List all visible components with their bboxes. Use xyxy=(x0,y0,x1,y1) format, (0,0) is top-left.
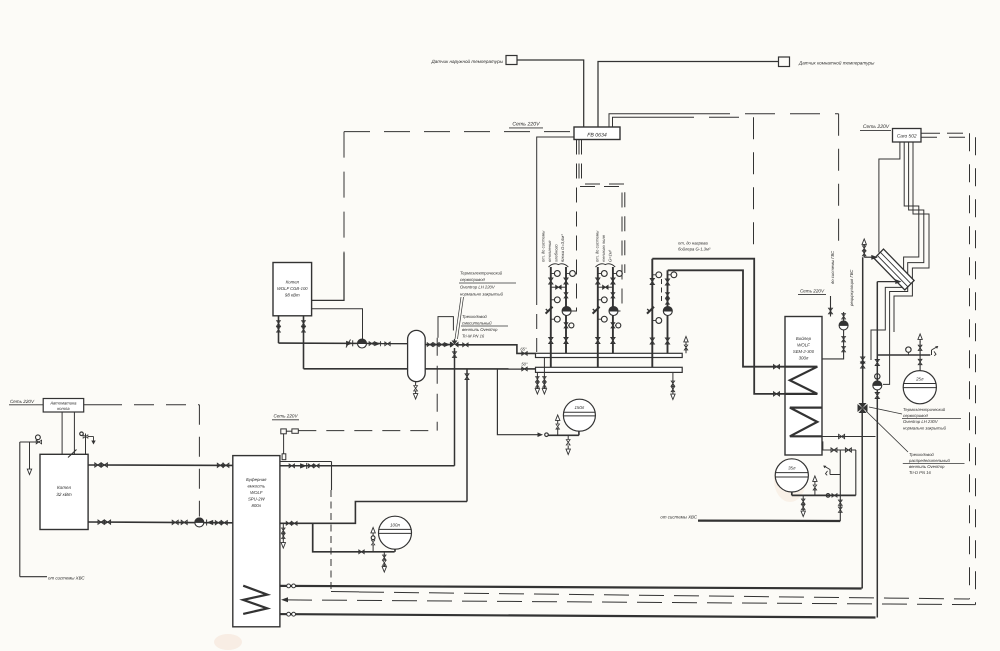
valve below mixing valve xyxy=(453,348,457,466)
svg-text:WOLF CGB-100: WOLF CGB-100 xyxy=(277,286,308,291)
svg-text:WOLF: WOLF xyxy=(797,343,810,348)
separator drain xyxy=(413,382,417,399)
buffer tank WOLF SPU-2W xyxy=(233,456,280,627)
pipe buffer to return xyxy=(465,369,469,502)
CGB right pipe xyxy=(302,316,306,369)
pipe to HX upper port xyxy=(864,255,878,260)
safety valve XVS xyxy=(823,466,840,476)
svg-text:Бойлер: Бойлер xyxy=(796,336,812,341)
wire controller to circuit2 pump xyxy=(579,140,625,312)
valves buffer supply xyxy=(286,521,297,525)
net 220V connector buffer xyxy=(281,429,299,434)
label to bojler heating xyxy=(678,241,711,252)
svg-text:отопления: отопления xyxy=(547,240,552,262)
svg-text:SEM-2-300: SEM-2-300 xyxy=(793,349,815,354)
wire Caro bundle w2 xyxy=(883,142,924,384)
wire connector to servo xyxy=(298,430,437,432)
svg-text:Сеть 220V: Сеть 220V xyxy=(273,414,298,419)
wire Caro bundle w3 xyxy=(894,142,929,332)
room temperature sensor xyxy=(779,57,875,67)
svg-text:Tri-M PN 16: Tri-M PN 16 xyxy=(462,334,485,339)
svg-text:вентиль Oventrop: вентиль Oventrop xyxy=(909,464,945,469)
buffer sensor sleeve xyxy=(282,434,286,460)
boiler WOLF CGB-100 xyxy=(273,263,312,316)
svg-text:65°: 65° xyxy=(520,346,527,351)
label thermo servo left xyxy=(459,271,516,297)
svg-text:от, до системы: от, до системы xyxy=(595,231,600,262)
label Tri-M valve xyxy=(461,314,508,339)
pipe recirc return xyxy=(822,330,845,359)
label XVS left xyxy=(48,575,85,580)
heating circuit 3 risers xyxy=(647,259,677,368)
label net 220V buffer xyxy=(272,414,299,420)
pump DHW loading xyxy=(873,381,882,390)
wire 220V to automation xyxy=(36,404,43,406)
valves boiler return xyxy=(98,520,227,525)
svg-text:Термоэлектрический: Термоэлектрический xyxy=(460,271,503,276)
vent on 35l line xyxy=(813,476,817,496)
safety valve right xyxy=(932,346,939,356)
valves after pump xyxy=(369,341,390,346)
wire Caro bundle w1 xyxy=(871,142,919,360)
valve on V2 xyxy=(875,360,879,366)
svg-text:50°: 50° xyxy=(521,362,528,367)
pipe 35l tank xyxy=(792,492,856,497)
pipe flow main xyxy=(279,342,408,345)
valve coil return xyxy=(774,392,780,396)
manifold drain left 1 xyxy=(535,372,539,394)
svg-text:до системы ГВС: до системы ГВС xyxy=(830,250,835,284)
wire Caro bundle w0 xyxy=(879,142,900,253)
svg-text:Caro 502: Caro 502 xyxy=(897,134,917,140)
supply manifold xyxy=(536,353,683,357)
expansion tank 25l xyxy=(903,371,936,404)
svg-text:от, до системы: от, до системы xyxy=(541,231,546,262)
manifold air vent right xyxy=(684,336,688,353)
pipe from XVS system xyxy=(660,515,840,522)
pipe boiler supply xyxy=(88,464,233,466)
pipe XVS to boiler xyxy=(20,442,47,577)
pipe flow right of separator xyxy=(425,344,451,346)
XVS riser xyxy=(838,450,842,521)
svg-text:G=1м³: G=1м³ xyxy=(608,249,613,262)
svg-text:35л: 35л xyxy=(788,466,796,471)
label thermo servo right xyxy=(902,407,961,431)
svg-text:нормально закрытый: нормально закрытый xyxy=(903,426,947,431)
manifold drain right xyxy=(671,372,675,399)
pipe bojler to V2 xyxy=(822,434,876,438)
wire controller right W2 xyxy=(613,117,754,256)
svg-text:32 кВт: 32 кВт xyxy=(56,492,72,497)
boiler safety group xyxy=(80,432,96,454)
three-way mixing valve Tri-M xyxy=(451,339,459,348)
pipe buffer charge top xyxy=(280,465,455,467)
pump boiler return xyxy=(195,518,204,527)
svg-text:котла: котла xyxy=(57,406,70,411)
wire automation to pump xyxy=(84,405,200,517)
pipe return to 150l xyxy=(497,369,548,437)
svg-text:теплого поля: теплого поля xyxy=(601,234,606,262)
outdoor temperature sensor xyxy=(430,56,517,65)
svg-text:98 кВт: 98 кВт xyxy=(285,293,300,298)
label net 220V left xyxy=(9,399,36,405)
Caro 502 controller xyxy=(893,129,922,143)
wire Caro right upper xyxy=(921,133,970,599)
fittings buffer charge xyxy=(289,463,319,469)
label 65 xyxy=(520,346,527,351)
svg-text:от системы ХВС: от системы ХВС xyxy=(48,575,85,580)
svg-text:распределительный: распределительный xyxy=(908,458,950,463)
svg-text:Tri-D PN 16: Tri-D PN 16 xyxy=(909,470,931,475)
svg-text:SPU-2W: SPU-2W xyxy=(248,497,266,502)
valves boiler supply xyxy=(95,463,229,468)
label circuit 2 xyxy=(595,231,613,262)
label recirculation xyxy=(849,269,854,307)
svg-text:сервопривод: сервопривод xyxy=(903,413,929,418)
wires automation to boiler xyxy=(62,412,76,458)
leader thermo servo xyxy=(869,407,902,414)
svg-text:100л: 100л xyxy=(390,523,400,528)
svg-text:25л: 25л xyxy=(915,377,924,382)
hydraulic separator xyxy=(408,330,426,381)
unions DHW return xyxy=(287,612,296,616)
svg-text:Трехходовой: Трехходовой xyxy=(462,314,487,319)
drain on 100l line xyxy=(382,552,386,572)
vent on 150l line xyxy=(556,415,560,435)
valves V1 top xyxy=(862,246,866,257)
check valve flow xyxy=(346,340,353,348)
heating circuit 1 risers xyxy=(546,264,576,367)
pipe to HX lower port xyxy=(877,279,901,284)
wire dashed bottom 1 xyxy=(331,592,970,600)
svg-text:WOLF: WOLF xyxy=(250,490,263,495)
return manifold xyxy=(536,367,683,372)
pipe branch to 100l xyxy=(313,523,395,552)
svg-text:FB 0634: FB 0634 xyxy=(587,133,607,139)
pipe V2 xyxy=(876,282,878,618)
boiler automation box xyxy=(43,399,83,413)
svg-text:Датчик комнатной температуры: Датчик комнатной температуры xyxy=(798,61,875,66)
svg-text:Сеть 220V: Сеть 220V xyxy=(863,124,890,130)
label Tri-D valve xyxy=(903,452,965,475)
wire dashed bottom 2 xyxy=(281,597,976,604)
svg-text:300л: 300л xyxy=(799,356,809,361)
label circuit 1 xyxy=(541,231,566,263)
check valve boiler return xyxy=(207,520,214,526)
svg-text:сервопривод: сервопривод xyxy=(460,277,486,282)
buffer coil xyxy=(243,586,267,614)
valve on 100l line xyxy=(359,550,364,554)
pipe 65 supply xyxy=(459,343,536,355)
wire controller to manifold left xyxy=(537,137,574,352)
svg-text:от системы ХВС: от системы ХВС xyxy=(660,515,697,520)
label net 220V bojler xyxy=(798,289,826,295)
valve on V1 xyxy=(861,357,865,368)
label DHW out xyxy=(830,250,835,284)
valve below pump V2 xyxy=(875,393,879,399)
pipe recirculation xyxy=(842,312,846,321)
wire CGB to pump xyxy=(312,309,363,340)
pipe boiler return xyxy=(88,521,233,524)
svg-text:вентиль Oventrop: вентиль Oventrop xyxy=(462,327,498,332)
pipe DHW supply bottom xyxy=(243,586,861,589)
wire room sensor to controller xyxy=(598,62,779,128)
expansion tank 35l xyxy=(775,459,808,492)
leaders to mixing valve xyxy=(455,297,464,339)
wire Caro right lower xyxy=(921,137,976,604)
air vent valve xyxy=(918,334,922,355)
svg-text:рециркуляция ГВС: рециркуляция ГВС xyxy=(849,269,854,307)
heating circuit 2 risers xyxy=(593,264,623,367)
svg-text:смесительный: смесительный xyxy=(462,321,492,326)
expansion tank 150l xyxy=(563,399,595,435)
plate heat exchanger xyxy=(874,249,914,290)
label net 220V at controller xyxy=(509,122,543,128)
leader Tri-D xyxy=(866,411,908,452)
pipe bojler coil supply xyxy=(668,270,785,366)
bojler coil lower xyxy=(790,408,822,437)
svg-text:блока G=3,6м³: блока G=3,6м³ xyxy=(560,234,565,262)
servo housing xyxy=(438,317,453,338)
pipe 150l line xyxy=(549,434,579,436)
pipe bojler coil return xyxy=(652,259,785,394)
label 50 xyxy=(521,362,528,367)
pipe cold down xyxy=(855,450,857,495)
controller FB 0634 xyxy=(574,127,620,140)
svg-text:Oventrop LH 220V: Oventrop LH 220V xyxy=(460,285,496,290)
svg-text:Датчик наружной температуры: Датчик наружной температуры xyxy=(430,59,503,64)
pipe safety main xyxy=(878,354,930,356)
boiler 32kW xyxy=(40,454,88,529)
pipe bojler cold feed xyxy=(822,442,856,452)
wire servo xyxy=(436,338,438,431)
valve coil supply xyxy=(774,365,780,369)
wire controller right W1 xyxy=(609,114,839,250)
wire controller to circuit1 pump xyxy=(572,140,577,312)
drain below buffer port xyxy=(281,523,285,548)
svg-text:Сеть 220V: Сеть 220V xyxy=(10,399,35,404)
wire to circuit3 pump xyxy=(661,279,663,303)
svg-text:Автоматика: Автоматика xyxy=(49,401,77,406)
pressure gauge xyxy=(906,347,911,355)
svg-text:150л: 150л xyxy=(574,405,584,410)
discharge arrow left xyxy=(27,442,31,475)
svg-text:от, до нагрева: от, до нагрева xyxy=(678,241,708,246)
svg-text:Котел: Котел xyxy=(286,280,300,285)
unions DHW supply xyxy=(287,584,296,588)
pump recirculation xyxy=(839,321,848,330)
svg-text:Сеть 220V: Сеть 220V xyxy=(800,289,825,294)
pipe V1 xyxy=(861,257,864,588)
valves flow right xyxy=(427,342,450,347)
safety on 100l line xyxy=(371,527,375,551)
svg-text:Буферная: Буферная xyxy=(246,477,267,482)
wire controller to CGB boiler xyxy=(312,132,344,301)
svg-text:Oventrop LH 230V: Oventrop LH 230V xyxy=(903,419,939,424)
check valve on V2 xyxy=(875,374,880,379)
svg-text:Котел: Котел xyxy=(57,485,71,490)
wire outdoor sensor to controller xyxy=(517,60,584,127)
manifold drain left 2 xyxy=(542,358,546,395)
cold feed with reducer xyxy=(20,435,42,444)
svg-text:хлебного: хлебного xyxy=(554,244,559,263)
label net 220V at Caro xyxy=(860,124,891,130)
drain on 150l line xyxy=(566,435,570,454)
pipe buffer top sensor line xyxy=(280,462,332,592)
CGB left pipe xyxy=(277,316,281,343)
valve to 25l tank xyxy=(918,355,922,371)
expansion tank 100l xyxy=(379,516,412,552)
svg-text:бойлера G-1,3м³: бойлера G-1,3м³ xyxy=(678,247,711,252)
pipe buffer supply mid xyxy=(280,502,467,524)
drain on 35l line xyxy=(801,495,805,516)
svg-text:Трехходовой: Трехходовой xyxy=(909,452,934,457)
svg-text:емкость: емкость xyxy=(247,484,265,489)
wire 220V supply xyxy=(344,131,574,133)
svg-text:Сеть 220V: Сеть 220V xyxy=(512,122,540,128)
svg-text:800л: 800л xyxy=(252,503,262,508)
pipe DHW outlet xyxy=(829,296,833,317)
bojler coil upper xyxy=(785,367,817,394)
vent arrow V1 top xyxy=(862,239,866,248)
svg-text:Термоэлектрический: Термоэлектрический xyxy=(903,407,946,412)
svg-text:нормально закрытый: нормально закрытый xyxy=(460,292,504,297)
bojler WOLF SEM-2-300 xyxy=(785,317,822,456)
pump CGB circuit xyxy=(358,339,367,348)
three-way distribution valve Tri-D xyxy=(858,403,868,413)
pipe return main xyxy=(304,367,536,371)
pipe DHW return bottom xyxy=(243,614,875,618)
